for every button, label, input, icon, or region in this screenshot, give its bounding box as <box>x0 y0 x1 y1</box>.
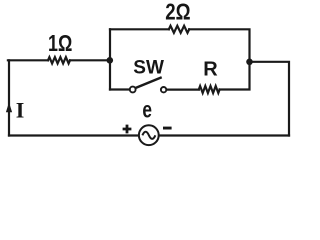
minus sign (source polarity) <box>163 127 172 130</box>
wire: bottom left (to source) <box>9 134 138 136</box>
wire: left branch vertical (node A up to top branch, down to switch branch) <box>109 29 111 89</box>
resistor 2-ohm zigzag <box>169 26 189 33</box>
node B junction dot <box>246 59 253 66</box>
svg-text:R: R <box>203 59 218 81</box>
switch SW blade <box>135 78 160 88</box>
wire: from resistor R up to node B <box>220 62 250 90</box>
resistor R1 1-ohm zigzag <box>48 57 70 63</box>
svg-text:2Ω: 2Ω <box>165 0 190 25</box>
wire: output from node B to right side <box>250 62 290 136</box>
svg-text:SW: SW <box>133 57 164 79</box>
AC source e: sine wave <box>142 132 155 139</box>
wire: horizontal from 1-ohm resistor to node A <box>70 59 110 61</box>
plus sign (source polarity) <box>123 125 132 134</box>
AC source e: circle <box>139 125 159 145</box>
svg-text:I: I <box>16 98 25 123</box>
wire: left vertical side <box>8 60 10 135</box>
wire: bottom right (from source) <box>160 134 290 136</box>
wire: switch branch from left vertical to switch terminal <box>110 88 130 90</box>
switch SW left terminal circle <box>130 87 136 93</box>
resistor R zigzag <box>199 86 220 93</box>
wire: top branch left segment (to 2-ohm resistor) <box>110 28 169 30</box>
node A junction dot <box>107 57 114 64</box>
current arrow I on left wire (pointing up) <box>6 102 12 112</box>
svg-text:1Ω: 1Ω <box>48 30 72 56</box>
wire: between switch and resistor R <box>166 88 199 90</box>
svg-text:e: e <box>142 96 152 122</box>
switch SW right terminal circle <box>161 87 166 92</box>
wire: top branch right segment with corner down to node B <box>189 29 249 62</box>
wire: top-left horizontal (left of 1-ohm resistor) <box>8 59 48 61</box>
